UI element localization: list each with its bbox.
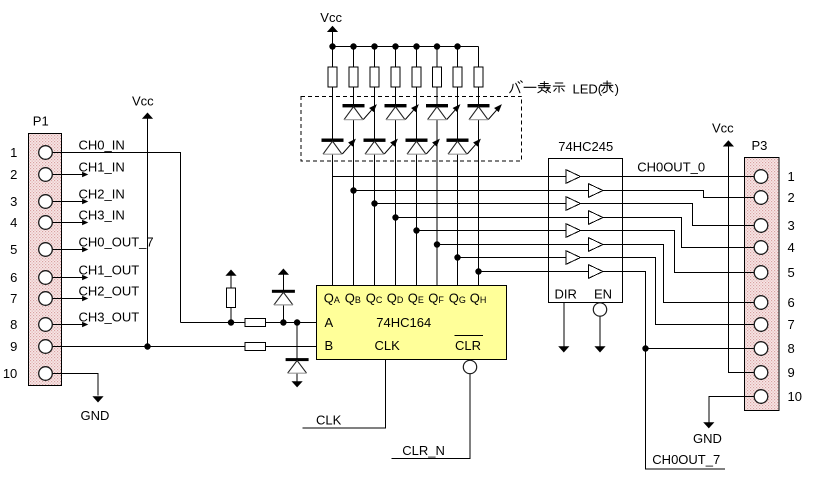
svg-text:GND: GND	[693, 431, 722, 446]
svg-text:CH1_IN: CH1_IN	[79, 160, 125, 175]
svg-text:8: 8	[10, 317, 17, 332]
svg-text:8: 8	[788, 341, 795, 356]
svg-text:): )	[615, 81, 619, 96]
svg-text:CH0_OUT_7: CH0_OUT_7	[79, 235, 154, 250]
svg-text:EN: EN	[594, 287, 612, 302]
svg-text:10: 10	[788, 389, 802, 404]
svg-text:9: 9	[10, 339, 17, 354]
svg-text:CH3_OUT: CH3_OUT	[79, 310, 140, 325]
svg-text:CH0_IN: CH0_IN	[79, 138, 125, 153]
svg-text:Vcc: Vcc	[320, 10, 342, 25]
svg-text:GND: GND	[81, 408, 110, 423]
svg-text:6: 6	[788, 295, 795, 310]
svg-text:2: 2	[788, 190, 795, 205]
svg-text:5: 5	[788, 265, 795, 280]
svg-text:1: 1	[788, 169, 795, 184]
svg-text:CLK: CLK	[316, 412, 342, 427]
svg-text:Vcc: Vcc	[132, 94, 154, 109]
svg-text:9: 9	[788, 365, 795, 380]
svg-text:6: 6	[10, 270, 17, 285]
svg-text:74HC245: 74HC245	[558, 139, 613, 154]
svg-text:B: B	[325, 338, 334, 353]
svg-text:7: 7	[10, 291, 17, 306]
svg-text:7: 7	[788, 317, 795, 332]
svg-text:P1: P1	[33, 114, 49, 129]
svg-text:CLK: CLK	[375, 338, 401, 353]
svg-text:CLR: CLR	[455, 338, 481, 353]
svg-text:Vcc: Vcc	[712, 120, 734, 135]
svg-text:4: 4	[10, 215, 17, 230]
svg-text:CH1_OUT: CH1_OUT	[79, 263, 140, 278]
svg-text:LED(: LED(	[573, 81, 603, 96]
svg-text:CH0OUT_0: CH0OUT_0	[637, 159, 705, 174]
svg-text:10: 10	[3, 366, 17, 381]
svg-text:DIR: DIR	[555, 287, 577, 302]
svg-text:5: 5	[10, 242, 17, 257]
svg-text:4: 4	[788, 240, 795, 255]
svg-text:2: 2	[10, 167, 17, 182]
svg-text:CH3_IN: CH3_IN	[79, 208, 125, 223]
svg-text:CH0OUT_7: CH0OUT_7	[652, 452, 720, 467]
svg-text:3: 3	[10, 194, 17, 209]
svg-text:CH2_OUT: CH2_OUT	[79, 284, 140, 299]
svg-text:CH2_IN: CH2_IN	[79, 187, 125, 202]
svg-text:74HC164: 74HC164	[376, 315, 431, 330]
svg-text:P3: P3	[752, 138, 768, 153]
svg-text:A: A	[325, 315, 334, 330]
svg-text:CLR_N: CLR_N	[402, 443, 445, 458]
svg-text:3: 3	[788, 218, 795, 233]
svg-text:1: 1	[10, 145, 17, 160]
